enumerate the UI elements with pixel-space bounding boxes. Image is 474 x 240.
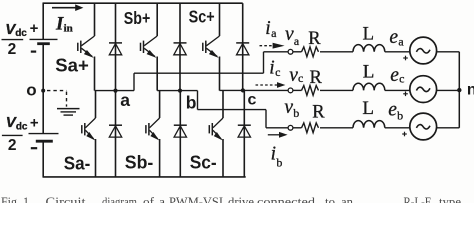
wire dashed from node o xyxy=(47,90,67,92)
svg-text:vb: vb xyxy=(284,97,299,120)
svg-text:Vdc: Vdc xyxy=(5,21,27,39)
fraction bar upper xyxy=(2,39,24,41)
transistor Sa- (IGBT) xyxy=(95,91,97,118)
ground symbol xyxy=(57,108,80,110)
wire phase b horizontal xyxy=(198,109,267,111)
svg-text:2: 2 xyxy=(8,137,17,154)
svg-text:connected: connected xyxy=(257,195,316,203)
wire top DC rail xyxy=(43,2,243,4)
svg-text:n: n xyxy=(467,82,474,99)
source eb (AC) xyxy=(410,113,437,140)
source ec (AC) xyxy=(410,76,437,103)
svg-text:Sc-: Sc- xyxy=(190,152,217,173)
resistor R phase a xyxy=(302,47,319,57)
wire phase b drop 1 xyxy=(197,91,199,110)
svg-text:ib: ib xyxy=(271,144,283,170)
node c junction dot xyxy=(241,88,245,92)
svg-text:ea: ea xyxy=(389,27,404,49)
svg-text:ec: ec xyxy=(390,65,404,86)
svg-text:PWM-VSI: PWM-VSI xyxy=(169,195,223,203)
svg-text:to: to xyxy=(325,195,335,203)
wire bottom DC rail xyxy=(43,176,246,178)
label B2 - xyxy=(31,147,37,149)
svg-text:Fig.: Fig. xyxy=(1,195,20,203)
resistor R phase b xyxy=(302,123,319,133)
node vc terminal circle xyxy=(288,88,293,93)
arrow Iin xyxy=(52,7,76,9)
svg-text:Vdc: Vdc xyxy=(6,114,28,132)
diode Dc+ (freewheel) xyxy=(242,3,244,90)
svg-text:R: R xyxy=(310,68,323,88)
wire phase a midpoint xyxy=(95,90,135,92)
svg-text:Sa-: Sa- xyxy=(64,152,91,173)
svg-text:1.: 1. xyxy=(23,195,32,203)
wire left bus upper (rail to battery B1) xyxy=(42,3,44,39)
svg-text:L: L xyxy=(363,23,375,44)
arrow ic xyxy=(256,84,279,86)
wire phase b to vb xyxy=(266,127,288,129)
svg-text:vc: vc xyxy=(289,65,303,86)
wire ec to bus xyxy=(437,89,460,91)
node va terminal circle xyxy=(288,49,293,54)
transistor Sa+ (IGBT) xyxy=(94,3,96,36)
wire left bus lower (battery B2 to bottom rail) xyxy=(42,142,44,177)
svg-text:2: 2 xyxy=(8,41,17,58)
node n junction dot xyxy=(457,88,461,92)
transistor Sb+ (IGBT) xyxy=(156,3,158,36)
wire eb to bus xyxy=(437,127,460,129)
wire phase a to va xyxy=(264,51,289,53)
svg-text:R-L-E: R-L-E xyxy=(404,195,432,203)
wire phase c midpoint xyxy=(220,89,289,91)
svg-text:Sb+: Sb+ xyxy=(124,8,151,28)
svg-text:L: L xyxy=(363,62,375,83)
svg-text:Sc+: Sc+ xyxy=(189,6,215,26)
svg-text:va: va xyxy=(285,24,300,48)
svg-text:L: L xyxy=(362,98,374,119)
svg-text:drive: drive xyxy=(228,195,255,203)
inductor L phase b xyxy=(353,121,385,128)
node o junction dot xyxy=(41,89,45,93)
svg-text:a: a xyxy=(159,195,166,203)
svg-text:+: + xyxy=(30,20,39,37)
label B1 - xyxy=(31,50,36,52)
arrow ib xyxy=(268,134,280,136)
wire vb to R xyxy=(293,127,302,129)
wire neutral bus xyxy=(458,52,460,128)
svg-text:a: a xyxy=(120,90,130,110)
wire phase a riser 1 xyxy=(133,73,135,90)
svg-text:Iin: Iin xyxy=(55,14,73,35)
svg-text:of: of xyxy=(143,195,155,203)
battery B2 plate short (-) xyxy=(36,140,53,143)
wire ea to bus xyxy=(437,51,460,53)
wire left bus (node o to battery B2) xyxy=(42,91,44,134)
svg-text:Sb-: Sb- xyxy=(125,152,154,173)
svg-text:type: type xyxy=(439,195,462,203)
inductor L phase a xyxy=(353,45,385,52)
wire left bus (battery B1 to node o) xyxy=(42,45,44,91)
battery B1 plate short (-) xyxy=(37,42,50,45)
wire dashed ground drop xyxy=(66,92,68,107)
wire vc to R xyxy=(293,89,302,91)
label + of ea xyxy=(403,57,408,59)
wire phase a riser 2 xyxy=(263,52,265,73)
svg-text:diagram: diagram xyxy=(102,195,137,203)
transistor Sc+ (IGBT) xyxy=(219,3,221,36)
fraction bar lower xyxy=(2,134,23,136)
svg-text:R: R xyxy=(312,102,325,122)
svg-text:o: o xyxy=(26,80,36,99)
inductor L phase c xyxy=(353,83,385,90)
label + of eb xyxy=(402,133,407,135)
diode Dc- (freewheel) xyxy=(243,91,245,177)
svg-text:Sa+: Sa+ xyxy=(55,54,89,75)
battery B1 plate long (+) xyxy=(30,38,58,40)
svg-text:ic: ic xyxy=(269,58,280,79)
diode Db+ (freewheel) xyxy=(179,3,181,90)
wire phase b drop 2 xyxy=(265,110,267,128)
source ea (AC) xyxy=(410,37,437,64)
node b junction dot xyxy=(178,89,182,93)
resistor R phase c xyxy=(302,86,319,96)
diode Da+ (freewheel) xyxy=(115,3,117,90)
svg-text:an: an xyxy=(341,195,353,203)
svg-text:R: R xyxy=(308,29,321,49)
diode Da- (freewheel) xyxy=(115,91,117,177)
transistor Sc- (IGBT) xyxy=(222,91,224,118)
node vb terminal circle xyxy=(288,125,293,130)
wire phase b midpoint xyxy=(157,90,197,92)
arrow ia xyxy=(260,45,274,47)
svg-text:b: b xyxy=(186,93,197,113)
label + of ec xyxy=(403,93,408,95)
svg-text:c: c xyxy=(248,92,257,109)
wire va to R xyxy=(293,51,302,53)
transistor Sb- (IGBT) xyxy=(159,91,161,118)
wire phase a horizontal xyxy=(134,72,264,74)
svg-text:Circuit: Circuit xyxy=(46,195,87,203)
svg-text:ia: ia xyxy=(265,18,277,40)
battery B2 plate long (+) xyxy=(29,133,59,135)
diode Db- (freewheel) xyxy=(179,91,181,177)
svg-text:+: + xyxy=(30,115,39,132)
node a junction dot xyxy=(113,89,117,93)
svg-text:eb: eb xyxy=(388,99,403,122)
